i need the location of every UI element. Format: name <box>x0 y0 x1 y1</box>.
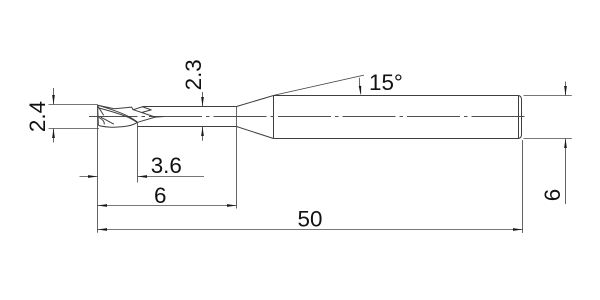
shank dia 6 arrowheads <box>564 86 567 96</box>
neck top line <box>143 106 237 108</box>
flute end gash quad <box>133 107 151 113</box>
svg-text:6: 6 <box>540 189 565 201</box>
svg-text:50: 50 <box>298 207 323 232</box>
flute helix edge 2 <box>98 108 137 123</box>
dim 6 extension line (taper start) <box>236 107 238 209</box>
shank end inner edge <box>518 96 520 139</box>
far flute edge top b <box>114 107 133 110</box>
flute end chevron <box>138 113 156 123</box>
svg-text:6: 6 <box>154 183 166 208</box>
dim 2.4 arrow tails <box>53 88 55 143</box>
neck bottom line <box>138 126 237 128</box>
flute far edge along neck <box>155 116 164 119</box>
second flute bottom edge <box>101 117 114 124</box>
svg-text:15°: 15° <box>369 70 403 95</box>
shank dia 6 extension bottom <box>524 138 572 140</box>
vertical extension line at tool tip <box>97 105 99 233</box>
taper bottom line <box>237 127 274 139</box>
dim 50 arrowheads <box>98 228 108 231</box>
svg-text:3.6: 3.6 <box>151 153 182 178</box>
dim 2.4 extension line bottom <box>49 128 100 130</box>
dim 15 arrowhead <box>359 86 362 96</box>
shank end outer chamfer <box>519 96 522 139</box>
dim 3.6 line right part <box>138 176 205 178</box>
centerline <box>89 116 527 118</box>
dim 50 line <box>98 229 523 231</box>
dim 3.6 line left part <box>80 176 98 178</box>
dim 2.3 arrow tails <box>202 92 204 141</box>
dim 3.6 extension line right <box>137 122 139 182</box>
dim 6 line <box>98 205 237 207</box>
shank top line <box>274 95 519 97</box>
dim 3.6 arrowheads <box>88 175 98 178</box>
dim 2.4 extension line top <box>49 104 98 106</box>
shank dia 6 extension top <box>524 95 572 97</box>
shank left edge <box>273 96 275 139</box>
shank bottom line <box>274 138 519 140</box>
tip root radius arc <box>99 117 105 124</box>
taper angle extension line <box>274 75 365 95</box>
svg-text:2.4: 2.4 <box>25 101 50 132</box>
taper top line <box>237 96 274 107</box>
end mill tip bottom silhouette <box>98 122 137 127</box>
dim 50 extension line right <box>522 140 524 233</box>
dim 2.3 arrowheads <box>201 97 204 107</box>
end mill tip left face <box>97 105 100 125</box>
dim 2.4 arrowheads <box>52 95 55 105</box>
svg-text:2.3: 2.3 <box>181 59 206 90</box>
dim 15 arc leader <box>359 78 360 94</box>
dim 6 arrowheads <box>98 204 108 207</box>
flute helix edge 1 <box>98 105 138 122</box>
shank dia 6 arrow tails <box>565 82 567 205</box>
far flute edge top a <box>98 105 115 109</box>
tip gash line <box>98 106 104 115</box>
